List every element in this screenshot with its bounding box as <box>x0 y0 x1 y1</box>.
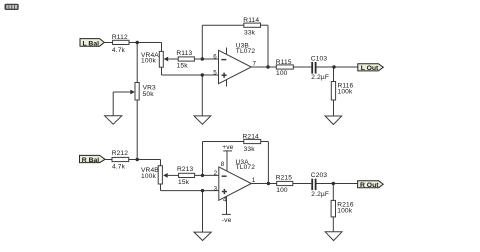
svg-text:100k: 100k <box>338 88 353 95</box>
svg-text:33k: 33k <box>244 30 256 37</box>
svg-text:100k: 100k <box>141 173 156 180</box>
svg-text:100k: 100k <box>337 207 352 214</box>
svg-text:100: 100 <box>276 187 288 194</box>
svg-text:7: 7 <box>253 60 257 67</box>
svg-text:-ve: -ve <box>222 217 232 224</box>
svg-text:R212: R212 <box>112 150 129 157</box>
svg-text:3: 3 <box>214 185 218 192</box>
svg-text:R115: R115 <box>276 59 292 66</box>
svg-text:R Bal: R Bal <box>82 157 99 164</box>
svg-text:8: 8 <box>221 161 225 168</box>
svg-text:C103: C103 <box>311 56 328 63</box>
svg-text:R214: R214 <box>243 134 260 141</box>
svg-text:2: 2 <box>214 170 218 177</box>
svg-text:R114: R114 <box>243 17 259 24</box>
svg-text:1: 1 <box>252 177 256 184</box>
svg-text:15k: 15k <box>178 179 190 186</box>
svg-text:TL072: TL072 <box>236 48 256 55</box>
svg-text:L Out: L Out <box>361 65 379 72</box>
svg-text:R112: R112 <box>112 34 128 41</box>
svg-text:R215: R215 <box>276 175 293 182</box>
svg-text:100: 100 <box>276 70 288 77</box>
svg-text:2.2µF: 2.2µF <box>311 74 329 81</box>
svg-text:L Bal: L Bal <box>83 40 100 47</box>
svg-text:+ve: +ve <box>222 144 233 151</box>
svg-text:C203: C203 <box>311 172 328 179</box>
svg-text:R213: R213 <box>177 166 194 173</box>
svg-text:50k: 50k <box>143 91 155 98</box>
svg-text:4.7k: 4.7k <box>112 47 126 54</box>
svg-text:TL072: TL072 <box>236 164 256 171</box>
svg-text:5: 5 <box>213 70 217 77</box>
svg-text:6: 6 <box>213 54 217 61</box>
svg-text:R Out: R Out <box>360 182 379 189</box>
svg-text:33k: 33k <box>244 146 256 153</box>
svg-text:2.2µF: 2.2µF <box>311 191 329 198</box>
svg-text:100k: 100k <box>141 57 156 64</box>
svg-text:4.7k: 4.7k <box>112 163 126 170</box>
svg-text:15k: 15k <box>177 63 189 70</box>
svg-text:4: 4 <box>223 197 227 204</box>
svg-text:R113: R113 <box>176 50 192 57</box>
